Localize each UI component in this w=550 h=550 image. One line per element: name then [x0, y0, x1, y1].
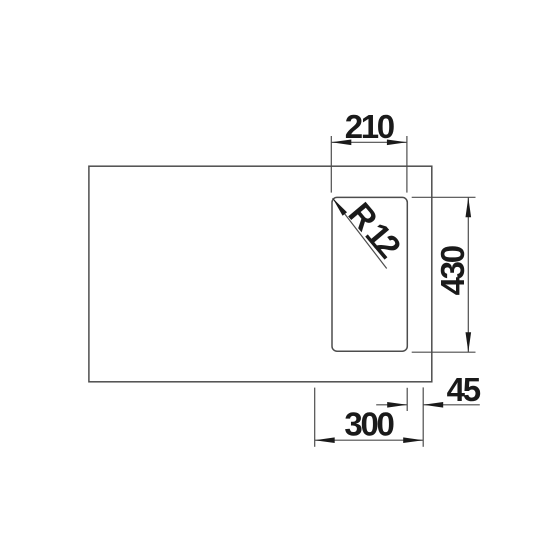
dim 300 arrowhead left	[315, 437, 335, 443]
svg-text:430: 430	[434, 246, 471, 295]
dim 45 dimension line left tail	[376, 404, 407, 406]
dim 45 dimension line right tail	[423, 404, 480, 406]
dim 45 arrowhead left (points right)	[387, 402, 407, 408]
svg-text:210: 210	[345, 108, 394, 145]
dim 430 extension line bottom	[412, 351, 476, 353]
dim 210 arrowhead right	[387, 140, 407, 146]
svg-text:45: 45	[447, 371, 481, 408]
radius R12 leader line	[333, 198, 387, 268]
dim 430 arrowhead top	[466, 197, 472, 217]
dim 210 extension line left	[330, 136, 332, 193]
worktop outline	[89, 166, 432, 382]
dim 210 dimension line	[331, 141, 407, 143]
dim 430 arrowhead bottom	[466, 332, 472, 352]
dim 300 arrowhead right	[403, 437, 423, 443]
dim 300 extension line left	[314, 388, 316, 447]
dim 430 extension line top	[412, 196, 476, 198]
dim 430 dimension line	[467, 197, 469, 352]
dim 45 / 300 shared extension line	[422, 387, 424, 446]
dim 210 extension line right	[406, 136, 408, 193]
dim 45 extension line left	[406, 388, 408, 411]
sink cutout R12 rounded rect	[332, 197, 407, 351]
svg-text:300: 300	[344, 406, 393, 443]
dim 210 arrowhead left	[331, 140, 351, 146]
dim 300 dimension line	[315, 439, 424, 441]
radius R12 arrowhead (points to corner)	[333, 198, 347, 216]
dim 45 arrowhead right (points left)	[423, 402, 443, 408]
